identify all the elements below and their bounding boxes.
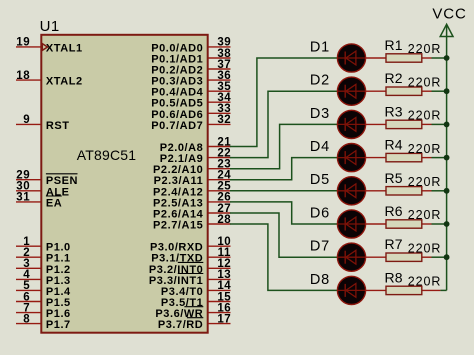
svg-text:EA: EA — [46, 197, 62, 209]
resistor R7 220R — [365, 236, 446, 261]
pin 25 P2.4/A12 (right) — [153, 181, 231, 199]
pin 14 P3.4/T0 (right) — [161, 280, 231, 298]
junction node R6/VCC — [444, 221, 450, 227]
wire P2.0 to D1 — [230, 58, 337, 147]
pin 8 P1.7 (left) — [16, 313, 71, 331]
svg-text:D3: D3 — [310, 106, 330, 122]
pin 7 P1.6 (left) — [16, 302, 71, 320]
power VCC symbol — [440, 24, 453, 36]
pin 28 P2.7/A15 (right) — [153, 214, 231, 232]
svg-text:U1: U1 — [40, 18, 60, 35]
svg-text:R8: R8 — [385, 269, 403, 285]
svg-text:XTAL2: XTAL2 — [46, 76, 83, 88]
pin 3 P1.2 (left) — [16, 258, 71, 276]
junction node R3/VCC — [444, 122, 450, 128]
pin 17 P3.7/RD (right) — [158, 313, 231, 331]
resistor R8 220R — [365, 269, 446, 294]
junction node R1/VCC — [444, 55, 450, 61]
svg-text:8: 8 — [23, 313, 30, 325]
svg-text:220R: 220R — [408, 42, 441, 56]
pin 23 P2.2/A10 (right) — [153, 159, 231, 177]
wire P2.1 to D2 — [230, 91, 337, 157]
XTAL1 clock input marker — [42, 44, 47, 51]
resistor R2 220R — [365, 70, 446, 95]
junction node R5/VCC — [444, 188, 450, 194]
pin 1 P1.0 (left) — [16, 236, 71, 254]
svg-text:9: 9 — [23, 114, 30, 126]
svg-text:31: 31 — [16, 192, 30, 204]
svg-text:RST: RST — [46, 120, 70, 132]
pin 21 P2.0/A8 (right) — [160, 136, 232, 154]
pin 36 P0.3/AD3 (right) — [151, 70, 231, 88]
svg-text:220R: 220R — [408, 241, 441, 255]
svg-text:XTAL1: XTAL1 — [46, 42, 83, 54]
LED D8 — [310, 272, 366, 305]
svg-text:220R: 220R — [408, 275, 441, 289]
resistor R4 220R — [365, 137, 446, 162]
pin 32 P0.7/AD7 (right) — [151, 114, 231, 132]
svg-text:220R: 220R — [408, 142, 441, 156]
pin 29 PSEN (left) — [16, 170, 78, 188]
LED D3 — [310, 106, 366, 139]
wire VCC rail — [446, 25, 448, 290]
pin 9 RST (left) — [16, 114, 70, 132]
pin 30 ALE (left) — [16, 181, 70, 199]
svg-text:R6: R6 — [385, 203, 403, 219]
pin 12 P3.2/INT0 (right) — [149, 258, 231, 276]
wire P2.2 to D3 — [230, 124, 337, 168]
svg-text:D8: D8 — [310, 272, 330, 288]
pin 22 P2.1/A9 (right) — [160, 147, 232, 165]
svg-text:R5: R5 — [385, 170, 403, 186]
pin 10 P3.0/RXD (right) — [150, 236, 231, 254]
pin 16 P3.6/WR (right) — [155, 302, 231, 320]
LED D2 — [310, 73, 366, 106]
pin 19 XTAL1 (left) — [16, 37, 83, 55]
wire P2.4 to D5 — [230, 190, 337, 192]
pin 26 P2.5/A13 (right) — [153, 192, 231, 210]
svg-text:D1: D1 — [310, 39, 330, 55]
svg-text:VCC: VCC — [432, 5, 466, 22]
pin 5 P1.4 (left) — [16, 280, 71, 298]
LED D4 — [310, 139, 366, 172]
svg-text:220R: 220R — [408, 109, 441, 123]
pin 35 P0.4/AD4 (right) — [151, 81, 231, 99]
svg-text:32: 32 — [217, 114, 231, 126]
pin 31 EA (left) — [16, 192, 62, 210]
pin 38 P0.1/AD1 (right) — [151, 48, 231, 66]
pin 18 XTAL2 (left) — [16, 70, 83, 88]
svg-text:18: 18 — [16, 70, 30, 82]
pin 15 P3.5/T1 (right) — [161, 291, 231, 309]
wire P2.6 to D7 — [230, 213, 337, 257]
svg-text:D7: D7 — [310, 239, 330, 255]
pin 24 P2.3/A11 (right) — [154, 170, 232, 188]
svg-text:28: 28 — [217, 214, 231, 226]
svg-text:D2: D2 — [310, 73, 330, 89]
svg-text:D4: D4 — [310, 139, 330, 155]
resistor R1 220R — [365, 37, 446, 62]
LED D1 — [310, 39, 366, 72]
svg-text:P3.7/RD: P3.7/RD — [158, 319, 203, 331]
LED D5 — [310, 172, 366, 205]
svg-text:R4: R4 — [385, 137, 403, 153]
svg-text:220R: 220R — [408, 75, 441, 89]
svg-text:P1.7: P1.7 — [46, 319, 71, 331]
pin 33 P0.6/AD6 (right) — [151, 103, 231, 121]
svg-text:R2: R2 — [385, 70, 403, 86]
junction node R4/VCC — [444, 155, 450, 161]
junction node R7/VCC — [444, 254, 450, 260]
svg-text:17: 17 — [217, 313, 231, 325]
pin 11 P3.1/TXD (right) — [151, 247, 231, 265]
resistor R5 220R — [365, 170, 446, 195]
svg-text:R3: R3 — [385, 103, 403, 119]
microcontroller U1 AT89C51 body — [41, 35, 207, 333]
svg-text:P2.7/A15: P2.7/A15 — [153, 220, 203, 232]
svg-text:R1: R1 — [385, 37, 403, 53]
svg-text:D5: D5 — [310, 172, 330, 188]
pin 27 P2.6/A14 (right) — [153, 203, 231, 221]
svg-text:D6: D6 — [310, 205, 330, 221]
pin 37 P0.2/AD2 (right) — [151, 59, 231, 77]
pin 6 P1.5 (left) — [16, 291, 71, 309]
svg-text:220R: 220R — [408, 175, 441, 189]
pin 39 P0.0/AD0 (right) — [151, 37, 231, 55]
wire P2.7 to D8 — [230, 224, 337, 290]
svg-text:AT89C51: AT89C51 — [77, 147, 137, 163]
LED D7 — [310, 239, 366, 272]
wire P2.3 to D4 — [230, 158, 337, 180]
svg-text:P0.7/AD7: P0.7/AD7 — [151, 120, 203, 132]
svg-text:R7: R7 — [385, 236, 403, 252]
pin 4 P1.3 (left) — [16, 269, 71, 287]
pin 2 P1.1 (left) — [16, 247, 71, 265]
junction node R2/VCC — [444, 88, 450, 94]
resistor R6 220R — [365, 203, 446, 228]
LED D6 — [310, 205, 366, 238]
svg-text:220R: 220R — [408, 208, 441, 222]
pin 13 P3.3/INT1 (right) — [149, 269, 231, 287]
svg-text:19: 19 — [16, 37, 30, 49]
wire P2.5 to D6 — [230, 202, 337, 224]
resistor R3 220R — [365, 103, 446, 128]
pin 34 P0.5/AD5 (right) — [151, 92, 231, 110]
